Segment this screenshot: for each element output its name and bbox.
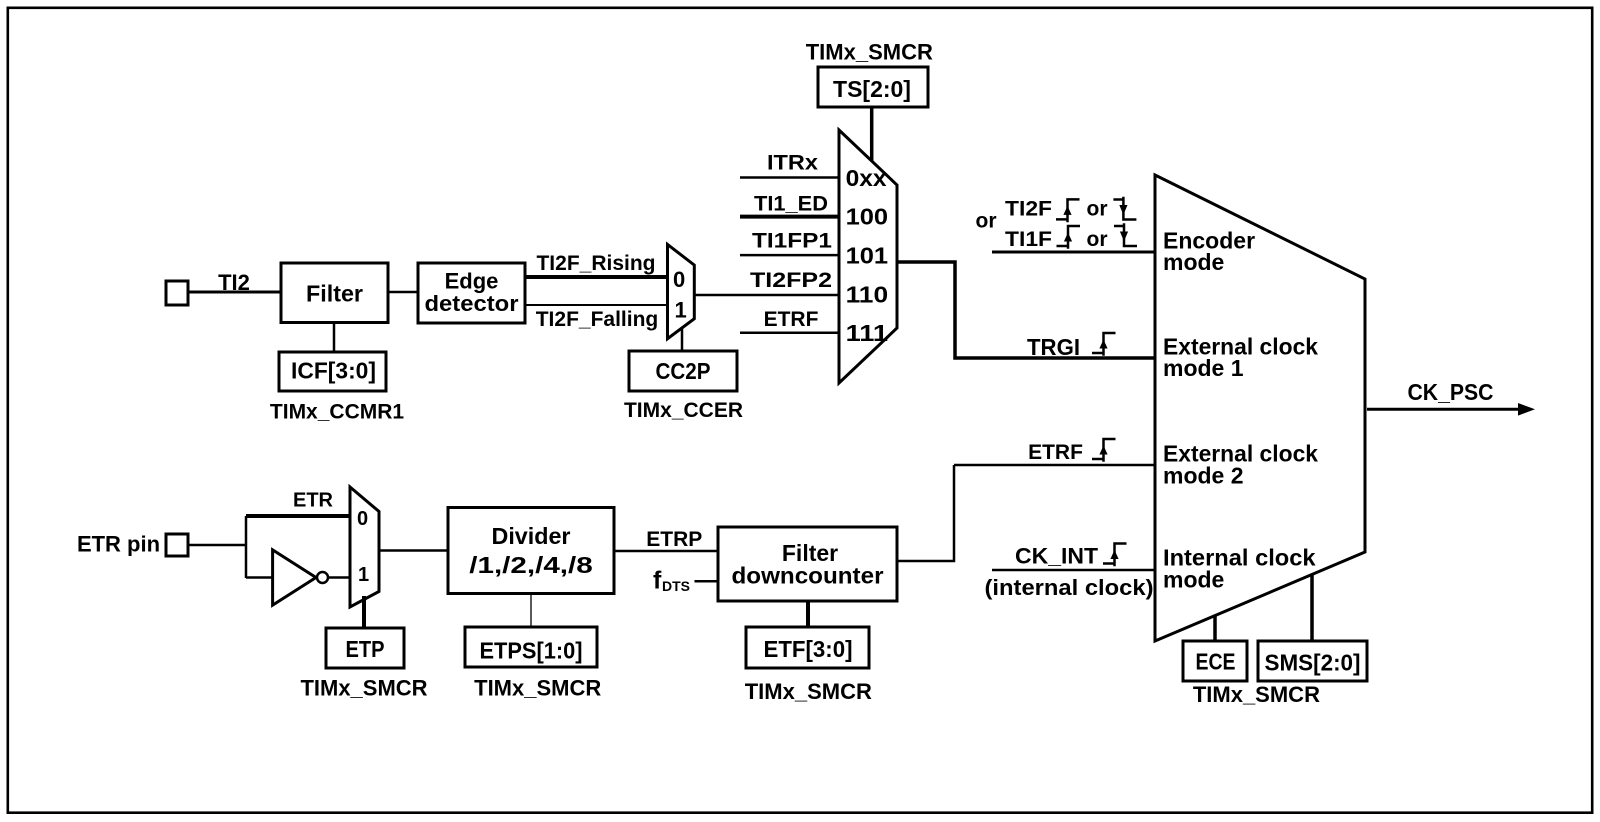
svg-text:ETF[3:0]: ETF[3:0] [764, 636, 853, 662]
svg-text:(internal clock): (internal clock) [985, 575, 1154, 600]
svg-text:TI2FP2: TI2FP2 [750, 269, 832, 292]
svg-text:Filter: Filter [306, 281, 363, 307]
svg-text:TI2F_Rising: TI2F_Rising [536, 252, 655, 275]
svg-text:0xx: 0xx [846, 165, 887, 191]
svg-text:0: 0 [673, 267, 685, 292]
svg-text:TI2F_Falling: TI2F_Falling [536, 308, 659, 331]
svg-text:ITRx: ITRx [767, 151, 818, 174]
svg-text:TI1F: TI1F [1005, 228, 1052, 251]
svg-text:TI1_ED: TI1_ED [754, 192, 828, 215]
svg-text:ETP: ETP [346, 636, 385, 662]
svg-text:CK_PSC: CK_PSC [1408, 379, 1494, 405]
svg-text:TIMx_SMCR: TIMx_SMCR [806, 40, 933, 65]
svg-text:TIMx_CCER: TIMx_CCER [624, 399, 743, 422]
svg-text:ETRF: ETRF [1028, 441, 1083, 464]
svg-text:ETRP: ETRP [646, 528, 702, 551]
svg-text:or: or [1087, 198, 1108, 221]
svg-text:TS[2:0]: TS[2:0] [833, 76, 911, 102]
svg-text:TI2: TI2 [218, 270, 250, 295]
svg-text:detector: detector [425, 291, 519, 316]
svg-text:ETR pin: ETR pin [77, 532, 160, 557]
svg-text:TI1FP1: TI1FP1 [752, 230, 832, 253]
svg-text:mode: mode [1163, 567, 1224, 593]
svg-text:TIMx_SMCR: TIMx_SMCR [300, 675, 427, 700]
svg-text:TRGI: TRGI [1027, 334, 1080, 360]
svg-text:/1,/2,/4,/8: /1,/2,/4,/8 [469, 552, 593, 578]
svg-text:ECE: ECE [1196, 649, 1236, 675]
svg-text:TI2F: TI2F [1005, 198, 1052, 221]
svg-text:1: 1 [675, 297, 687, 322]
svg-text:SMS[2:0]: SMS[2:0] [1265, 649, 1361, 675]
svg-text:or: or [1087, 228, 1108, 251]
svg-text:downcounter: downcounter [732, 563, 884, 589]
svg-text:ETPS[1:0]: ETPS[1:0] [480, 638, 583, 664]
svg-text:or: or [976, 209, 997, 232]
svg-text:ETRF: ETRF [764, 308, 819, 331]
svg-text:ETR: ETR [293, 489, 334, 511]
svg-text:CK_INT: CK_INT [1015, 544, 1099, 569]
svg-text:TIMx_SMCR: TIMx_SMCR [474, 675, 601, 700]
svg-text:TIMx_SMCR: TIMx_SMCR [1193, 682, 1320, 707]
svg-text:101: 101 [846, 243, 889, 269]
svg-text:CC2P: CC2P [656, 358, 711, 384]
svg-text:110: 110 [846, 281, 889, 307]
svg-text:TIMx_SMCR: TIMx_SMCR [745, 679, 872, 704]
svg-text:Edge: Edge [445, 269, 499, 294]
svg-text:DTS: DTS [662, 578, 690, 594]
svg-text:mode 2: mode 2 [1163, 463, 1244, 489]
svg-text:Divider: Divider [492, 523, 571, 549]
svg-text:TIMx_CCMR1: TIMx_CCMR1 [270, 401, 405, 424]
svg-text:100: 100 [846, 204, 889, 230]
svg-text:1: 1 [358, 564, 369, 586]
svg-text:111: 111 [846, 320, 889, 346]
svg-text:f: f [653, 567, 662, 595]
svg-text:0: 0 [357, 508, 368, 530]
svg-text:mode: mode [1163, 249, 1224, 275]
svg-text:ICF[3:0]: ICF[3:0] [291, 358, 376, 384]
svg-text:mode 1: mode 1 [1163, 355, 1244, 381]
